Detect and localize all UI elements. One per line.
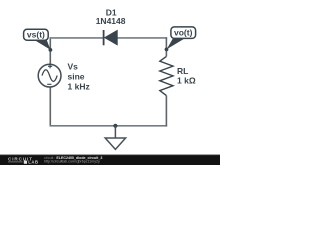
svg-text:LAB: LAB [28, 160, 38, 165]
wire top-right horizontal (diode anode to vo corner) [117, 37, 167, 39]
svg-text:Vs: Vs [68, 62, 79, 72]
wire top-left horizontal (to diode cathode) [50, 37, 104, 39]
ground symbol triangle [105, 138, 125, 149]
svg-text:1N4148: 1N4148 [96, 16, 126, 26]
watermark bar [0, 155, 220, 165]
node vs(t) anchor dot [49, 48, 53, 52]
ground stub wire [114, 126, 116, 138]
junction dot on bottom rail [113, 124, 117, 128]
wire right-bottom vertical (resistor to bottom rail) [165, 96, 167, 127]
svg-text:http://circuitlab.com/cjbrbpz1: http://circuitlab.com/cjbrbpz11my2y [44, 160, 100, 164]
svg-text:1 kHz: 1 kHz [68, 82, 90, 92]
watermark CircuitLab logo line and LAB [8, 161, 23, 163]
voltage source Vs circle [38, 64, 61, 87]
voltage source minus sign [47, 83, 51, 85]
diode D1 triangle [105, 30, 118, 45]
node vo(t) callout tail [167, 38, 185, 49]
voltage source plus sign [48, 64, 52, 68]
node vs(t) callout tail [34, 40, 51, 50]
resistor RL zigzag [160, 56, 173, 95]
node vo(t) callout bubble [171, 27, 196, 39]
svg-text:sine: sine [68, 72, 85, 82]
node vs(t) callout bubble [24, 29, 49, 40]
svg-text:1 kΩ: 1 kΩ [177, 75, 196, 85]
svg-text:vo(t): vo(t) [174, 28, 193, 38]
wire left-bottom vertical (source minus to bottom rail) [49, 87, 51, 126]
voltage source Vs sine wave [42, 70, 57, 82]
wire bottom rail [50, 125, 168, 127]
diode D1 cathode bar [103, 30, 105, 45]
wire right vertical (vo corner to resistor top) [165, 37, 167, 56]
node vo(t) anchor dot [165, 48, 169, 52]
wire left vertical (vs node down to source plus) [49, 37, 51, 64]
svg-text:vs(t): vs(t) [27, 30, 45, 40]
